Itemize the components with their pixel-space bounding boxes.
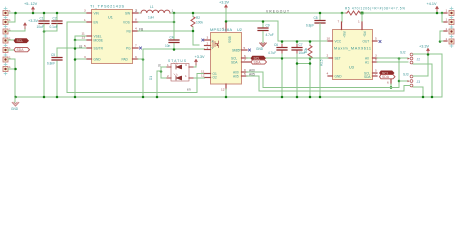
net label en on y92 line: [187, 87, 191, 91]
power +3.3V U2 top: [219, 1, 229, 11]
label C4 value: [165, 44, 171, 48]
svg-text:10uF: 10uF: [37, 25, 44, 29]
svg-text:3: 3: [185, 63, 187, 67]
capacitor C5: [51, 53, 62, 97]
label C7 value: [299, 51, 306, 55]
svg-text:7: 7: [338, 20, 340, 24]
svg-text:C2: C2: [53, 17, 57, 21]
junction LED left: [160, 70, 163, 73]
pad X2-4: [444, 37, 454, 44]
U2 bottom gnd pin: [221, 84, 226, 97]
IC U1 TPS62143 body: [90, 5, 133, 64]
svg-text:A1: A1: [365, 60, 369, 64]
junction bus x282: [281, 96, 284, 99]
svg-text:MODE: MODE: [94, 38, 104, 42]
svg-text:10n: 10n: [165, 44, 171, 48]
svg-text:4: 4: [327, 72, 329, 76]
ground symbol main: [12, 97, 18, 106]
svg-text:SET: SET: [335, 56, 341, 60]
svg-text:8: 8: [135, 18, 137, 22]
U1 pin SW: [125, 9, 138, 16]
label SJ3: [403, 73, 409, 77]
svg-text:1: 1: [446, 18, 448, 22]
net flag SCL pad4: [14, 39, 29, 43]
U1 pin VSEL: [82, 32, 102, 39]
junction C2/rail: [56, 12, 59, 15]
svg-text:C5: C5: [51, 53, 55, 57]
svg-text:SDA: SDA: [364, 75, 371, 79]
capacitor C7: [292, 41, 303, 97]
svg-text:SJ3: SJ3: [403, 73, 409, 77]
junction VSEL/MODE: [74, 39, 77, 42]
label C5 value: [47, 62, 55, 66]
U1 pin EN: [84, 18, 99, 24]
label C9 value: [266, 33, 274, 37]
junction R2/FB: [192, 30, 195, 33]
wire +3.3V drop x226 (crosses rail): [225, 9, 227, 21]
svg-text:2: 2: [207, 41, 209, 45]
svg-text:A: A: [212, 40, 214, 44]
power +3.3V right: [419, 45, 430, 55]
net flag SDA U3: [380, 75, 396, 79]
U1 pin PG with no-connect: [126, 44, 142, 51]
ground symbol C9: [260, 41, 266, 46]
wire pad6/pad7 to ground bus: [8, 59, 15, 97]
svg-text:1: 1: [207, 46, 209, 50]
wire SS/TR y48: [57, 48, 87, 57]
svg-text:4.7uF: 4.7uF: [266, 33, 274, 37]
svg-text:4: 4: [135, 27, 137, 31]
U3 pin A0: [365, 54, 377, 61]
wire RS+ drop: [341, 13, 343, 22]
U1 pin VIN: [84, 9, 100, 16]
svg-text:3: 3: [84, 55, 86, 59]
wire LED upper right riser: [194, 64, 196, 67]
svg-text:VCC: VCC: [335, 39, 342, 43]
wire C7 branch y63.5: [297, 63, 310, 65]
net label a00: [249, 68, 255, 72]
svg-text:RS+: RS+: [342, 32, 346, 38]
IC U3 MAX9611 body: [333, 30, 373, 80]
svg-text:7: 7: [375, 72, 377, 76]
junction bus x75: [74, 96, 77, 99]
net flag SCL U2: [251, 56, 266, 60]
wire SJ3 middle feed: [399, 80, 408, 82]
pad X2-2: [444, 18, 454, 25]
junction SSTR/x75: [74, 47, 77, 50]
U1 pin SS/TR: [84, 44, 104, 50]
wire SJ3 bottom to bus riser: [413, 87, 423, 97]
svg-text:C6: C6: [274, 43, 278, 47]
wire U1 GND pin: [75, 58, 87, 60]
junction U1 gnd/x75: [74, 58, 77, 61]
junction RS+ drop: [341, 12, 344, 15]
wire +3.3V rail y54: [415, 54, 442, 97]
wire VOS to x174: [138, 21, 174, 23]
pad X1-6: [3, 56, 11, 62]
U2 internal part text: [228, 37, 242, 53]
svg-text:OUT: OUT: [363, 39, 370, 43]
ground bus y97: [15, 96, 442, 98]
wire VSEL/MODE tie: [75, 36, 87, 40]
svg-text:3: 3: [84, 9, 86, 13]
junction C7 branch left: [296, 62, 299, 65]
svg-text:4.7uF: 4.7uF: [268, 51, 276, 55]
svg-text:+5..12V: +5..12V: [24, 2, 38, 6]
net label sstr: [79, 45, 83, 49]
net label GND: [256, 47, 264, 51]
label J3: [417, 80, 421, 84]
wire SJ2 bottom to bus riser: [413, 64, 432, 97]
pad X2-1: [444, 9, 454, 16]
svg-text:1: 1: [84, 18, 86, 22]
svg-text:TI_TPS62143S: TI_TPS62143S: [90, 5, 124, 9]
junction VOS: [173, 21, 176, 24]
U2 pin 3 left no-connect: [202, 36, 211, 42]
svg-text:1uH: 1uH: [148, 16, 155, 20]
U2 pin 2 left: [205, 41, 211, 45]
capacitor C1: [39, 13, 49, 31]
svg-text:O2: O2: [213, 76, 217, 80]
svg-text:SDA: SDA: [17, 48, 25, 52]
svg-text:1: 1: [358, 20, 360, 24]
svg-text:SJ2: SJ2: [400, 51, 406, 55]
wire A0 to SJ2: [377, 57, 408, 59]
svg-text:7: 7: [244, 58, 246, 62]
U3 bottom gnd stub: [387, 80, 391, 88]
svg-text:GND: GND: [11, 107, 19, 110]
junction C1/rail: [43, 12, 46, 15]
U1 pin VOS: [123, 18, 138, 25]
pad origin crosses X1: [4, 7, 7, 75]
U3 pin SDA: [364, 72, 377, 79]
svg-text:PG: PG: [126, 46, 131, 50]
wire pad3R corner: [440, 31, 444, 41]
U1 pin FB: [127, 27, 139, 34]
junction pad7: [14, 68, 17, 71]
junction R4/SET: [309, 57, 312, 60]
U2 pin SDA right: [231, 58, 252, 65]
wire FB line: [138, 30, 193, 32]
wire SJ3 top to +3.3V: [413, 56, 428, 76]
power +4.1V: [427, 2, 439, 12]
wire pad4R stub: [440, 40, 444, 42]
svg-text:J2: J2: [417, 57, 421, 61]
svg-text:V: V: [212, 46, 214, 50]
net flag SDA pad5: [14, 48, 30, 52]
U3 pin GND left: [327, 72, 343, 79]
net label led: [158, 63, 161, 67]
LED pack STATUS: [149, 59, 194, 81]
svg-text:U3: U3: [349, 66, 354, 70]
svg-text:SCL: SCL: [17, 39, 24, 43]
svg-text:SDA: SDA: [382, 75, 390, 79]
svg-text:MPS2346A: MPS2346A: [210, 28, 232, 32]
wire LED left pins tie: [161, 67, 166, 78]
svg-text:L1: L1: [150, 5, 154, 9]
label SJ2: [400, 51, 406, 55]
U1 pin PAD: [122, 55, 139, 61]
label C1 value: [37, 25, 44, 29]
svg-text:C1: C1: [40, 17, 44, 21]
svg-text:PAD: PAD: [122, 57, 129, 61]
resistor R4 pullup: [304, 41, 312, 97]
wire pad2R riser: [442, 13, 444, 22]
svg-text:1: 1: [446, 9, 448, 13]
svg-text:U1: U1: [108, 16, 113, 20]
wire C1C2 node to bus: [43, 31, 45, 97]
wire pad5 stub: [8, 49, 14, 51]
svg-text:10k: 10k: [304, 47, 308, 53]
U2 pin A00 right: [233, 68, 247, 75]
wire LED lower right to U2 O2: [194, 77, 205, 79]
U3 pin A1: [365, 58, 377, 65]
pad X1-1: [3, 9, 11, 15]
U3 pin RS+: [338, 20, 346, 38]
junction x226: [225, 20, 228, 23]
label J2: [417, 57, 421, 61]
net label FB: [139, 27, 144, 31]
svg-text:D1: D1: [149, 76, 153, 80]
net label GND main: [11, 107, 19, 111]
svg-text:5: 5: [84, 44, 86, 48]
svg-text:5: 5: [244, 46, 246, 50]
svg-text:2: 2: [327, 54, 329, 58]
U2 pin O2 left: [201, 73, 217, 79]
svg-text:12: 12: [201, 73, 205, 77]
U3 pin VCC: [327, 37, 342, 44]
wire mode chain down to bus: [74, 40, 76, 97]
U3 pin OUT with no-connect: [363, 37, 382, 44]
net flag SCL U3: [380, 71, 395, 75]
svg-text:A1.5: A1.5: [320, 59, 324, 66]
svg-text:VIN: VIN: [94, 11, 100, 15]
svg-text:+3.3V: +3.3V: [419, 45, 429, 49]
U2 top pin stub: [222, 23, 226, 31]
svg-text:1: 1: [167, 63, 169, 67]
pad X1-7: [3, 65, 11, 71]
junction A0/x399: [398, 57, 401, 60]
U2 internal mosfet symbol: [212, 40, 219, 51]
U2 pin 1 left: [205, 46, 211, 50]
svg-text:1: 1: [9, 9, 11, 13]
junction R2 top: [192, 12, 195, 15]
svg-text:R5 470/1206(=R=#)08=4=7.5%: R5 470/1206(=R=#)08=4=7.5%: [345, 7, 405, 11]
pad origin crosses X2: [450, 7, 453, 48]
svg-text:100k: 100k: [196, 21, 203, 25]
IC U2 body: [210, 28, 242, 84]
capacitor C8: [314, 13, 326, 97]
junction C6 top: [281, 40, 284, 43]
wire RS- drop: [361, 13, 363, 22]
wire LED left feed: [157, 71, 161, 97]
junction bus x226: [225, 96, 228, 99]
svg-text:GND: GND: [335, 74, 343, 78]
resistor R5 shunt: [345, 7, 405, 16]
junction SW node: [173, 12, 176, 15]
U1 pin MODE: [82, 36, 104, 43]
svg-text:+4.1V: +4.1V: [427, 2, 437, 6]
svg-text:1: 1: [185, 74, 187, 78]
svg-text:SDA: SDA: [231, 60, 238, 64]
junction C1C2 bottom: [43, 30, 46, 33]
junction +3.3V stem: [427, 53, 430, 56]
U2 pin SCL right: [231, 54, 247, 61]
wire A1 to SJ2: [377, 61, 408, 63]
wire x143 vertical + y49 branch: [143, 49, 205, 97]
svg-text:RS-: RS-: [362, 32, 366, 38]
junction pad2/rail: [14, 12, 17, 15]
power +5..12V: [24, 2, 38, 13]
junction R4 top: [309, 40, 312, 43]
U2 pin O1 left: [201, 69, 217, 76]
wire A05 line: [247, 76, 411, 91]
svg-text:C4: C4: [170, 36, 174, 40]
svg-text:GND: GND: [256, 47, 264, 51]
wire x399 riser: [398, 58, 400, 88]
svg-text:st: st: [158, 63, 161, 67]
svg-text:VOS: VOS: [123, 20, 130, 24]
U2 pin A05 right: [233, 72, 247, 79]
junction +4.1V/rail: [436, 12, 439, 15]
junction pad4R: [439, 40, 442, 43]
junction R5 right: [361, 12, 364, 15]
U3 pin RS-: [358, 20, 366, 38]
label C6 value: [268, 51, 276, 55]
wire EN loop: [67, 22, 205, 93]
svg-text:+3.3V: +3.3V: [28, 19, 38, 23]
svg-text:EN: EN: [94, 20, 99, 24]
svg-text:Maxim_MAX9611: Maxim_MAX9611: [334, 47, 371, 51]
wire SJ2 top to +3.3V rail: [413, 53, 415, 55]
svg-text:6.8pF: 6.8pF: [306, 24, 314, 28]
net label x320 vertical: [320, 59, 324, 66]
net flag SDA U2: [251, 60, 267, 64]
svg-text:1: 1: [446, 27, 448, 31]
junction bus x310: [309, 96, 312, 99]
svg-text:en: en: [187, 87, 191, 91]
svg-text:7: 7: [135, 44, 137, 48]
svg-text:3: 3: [207, 36, 209, 40]
junction C7 branch right: [309, 62, 312, 65]
junction bus x432: [431, 96, 434, 99]
label C8 value: [306, 24, 314, 28]
svg-text:ss: ss: [79, 45, 83, 49]
junction bus x15.5: [14, 96, 17, 99]
svg-text:J3: J3: [417, 80, 421, 84]
junction PAD/x143: [142, 58, 145, 61]
junction pad2R riser: [441, 12, 444, 15]
capacitor C9: [258, 21, 270, 41]
svg-text:GND: GND: [94, 57, 102, 61]
svg-text:0.1uF: 0.1uF: [50, 25, 58, 29]
resistor R2 vertical: [191, 13, 203, 45]
svg-text:U2: U2: [237, 28, 242, 32]
junction C8/rail: [319, 12, 322, 15]
junction bus x423: [422, 96, 425, 99]
junction +5V/rail: [32, 12, 35, 15]
junction bus x320: [319, 96, 322, 99]
svg-text:10: 10: [327, 37, 331, 41]
svg-text:VREGOUT: VREGOUT: [266, 9, 289, 13]
wire SCL line to U3 SET: [247, 57, 329, 59]
junction x399/SJ3 row: [398, 80, 401, 83]
U3 pin SET: [327, 54, 341, 61]
net label a05: [249, 72, 255, 76]
junction bus x157: [156, 96, 159, 99]
junction C9 top: [262, 20, 265, 23]
junction U3 gnd/A00 line: [390, 86, 393, 89]
svg-text:FB: FB: [127, 29, 131, 33]
svg-text:R2: R2: [196, 16, 200, 20]
pad X1-4: [3, 37, 11, 43]
U2 pin 5 right no-connect: [242, 46, 251, 51]
junction C4/y49: [173, 48, 176, 51]
svg-text:5: 5: [244, 72, 246, 76]
svg-text:2: 2: [136, 9, 138, 13]
pad X1-5: [3, 46, 11, 52]
svg-text:6.8nF: 6.8nF: [47, 62, 55, 66]
power +3.3V left: [23, 19, 38, 29]
wire A00 line: [247, 72, 400, 88]
power +3.3V LED: [194, 55, 205, 65]
svg-text:C9: C9: [266, 24, 270, 28]
pad X1-3: [3, 28, 11, 34]
junction bus x143: [142, 96, 145, 99]
junction SCL/C6: [281, 57, 283, 59]
svg-text:5: 5: [375, 37, 377, 41]
svg-text:SW: SW: [125, 11, 130, 15]
svg-text:2: 2: [167, 74, 169, 78]
U3 pin SCL: [364, 69, 377, 76]
junction C7 top: [296, 40, 299, 43]
wire x174 vertical: [173, 13, 175, 39]
net label VREGOUT: [266, 9, 289, 13]
svg-text:9: 9: [135, 55, 137, 59]
svg-text:C7: C7: [299, 43, 303, 47]
svg-text:SS/TR: SS/TR: [94, 46, 104, 50]
wire y21 branch to VCC rail: [226, 21, 333, 41]
capacitor C4: [169, 36, 179, 50]
wire PAD pin to x143: [138, 58, 143, 60]
label C2 value: [50, 25, 58, 29]
svg-text:SM05T: SM05T: [232, 49, 241, 53]
svg-text:12: 12: [221, 88, 225, 92]
svg-text:A05: A05: [233, 74, 239, 78]
svg-text:1: 1: [446, 37, 448, 41]
junction bus x297: [296, 96, 299, 99]
svg-text:SDA: SDA: [254, 60, 262, 64]
svg-text:+3.3V: +3.3V: [195, 55, 205, 59]
junction bus x57: [56, 96, 59, 99]
U1 pin GND: [84, 55, 101, 61]
solder jumper SJ2: [408, 53, 413, 64]
capacitor C2: [44, 13, 62, 31]
junction bus x44: [43, 96, 46, 99]
wire pad4 stub: [8, 39, 15, 41]
svg-text:STATUS: STATUS: [168, 59, 186, 63]
solder jumper SJ3: [408, 75, 413, 87]
capacitor C6: [274, 41, 287, 97]
wire +3.3V feed y31: [8, 28, 25, 31]
svg-text:13: 13: [82, 36, 86, 40]
inductor L1: [136, 5, 174, 20]
svg-text:6: 6: [387, 81, 389, 85]
svg-text:C8: C8: [314, 16, 318, 20]
pad X2-3: [444, 27, 454, 34]
pad X1-2: [3, 18, 11, 24]
wire top rail VREGIN/VREGOUT y13: [8, 12, 444, 14]
